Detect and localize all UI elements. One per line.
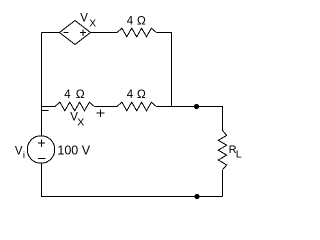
svg-text:Ω: Ω xyxy=(137,13,146,27)
voltage source Vi circle xyxy=(27,136,55,164)
wire left vertical xyxy=(41,33,43,136)
wire diamond to top resistor xyxy=(91,32,118,34)
wire middle-left stub xyxy=(42,106,56,108)
svg-text:4: 4 xyxy=(64,89,71,101)
dependent source plus sign xyxy=(80,30,86,37)
svg-text:Ω: Ω xyxy=(137,87,146,101)
wire between middle resistors xyxy=(94,106,117,108)
svg-text:V: V xyxy=(80,12,88,24)
svg-text:X: X xyxy=(77,117,84,129)
node dot upper right xyxy=(194,104,199,109)
polarity plus (middle resistor right) xyxy=(97,110,105,117)
polarity minus (middle resistor left) xyxy=(41,110,48,112)
wire RL to bottom corner xyxy=(222,170,224,197)
svg-text:4: 4 xyxy=(127,15,134,27)
resistor RL vertical xyxy=(218,131,226,170)
voltage source plus sign xyxy=(38,140,45,147)
svg-text:V: V xyxy=(15,146,23,158)
resistor 4ohm middle-left (Vx) xyxy=(55,102,94,111)
wire top resistor to right corner xyxy=(156,33,171,107)
svg-text:X: X xyxy=(89,19,96,30)
svg-text:L: L xyxy=(236,149,242,161)
wire bottom xyxy=(42,163,223,196)
svg-text:4: 4 xyxy=(127,89,134,101)
resistor 4ohm middle-right xyxy=(117,102,156,111)
svg-text:i: i xyxy=(23,150,25,161)
wire top-left to diamond xyxy=(42,32,60,34)
wire middle to top-right corner xyxy=(156,107,222,131)
dependent source Vx (diamond) xyxy=(60,21,91,45)
svg-text:Ω: Ω xyxy=(76,87,85,101)
node dot lower right xyxy=(194,194,199,199)
svg-text:100 V: 100 V xyxy=(57,144,90,158)
voltage source minus sign xyxy=(38,157,46,159)
resistor 4ohm top xyxy=(117,28,156,37)
dependent source minus sign xyxy=(63,32,68,34)
